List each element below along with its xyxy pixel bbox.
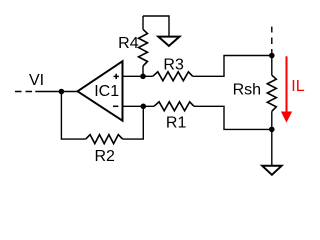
svg-text:VI: VI	[29, 72, 44, 89]
wire R3 to node C	[193, 56, 270, 77]
node E junction dot (bottom of Rsh)	[269, 127, 275, 133]
node D junction dot (-/R2/R1)	[141, 104, 147, 110]
node C junction dot (top of Rsh)	[269, 53, 275, 59]
svg-text:IL: IL	[291, 78, 304, 95]
resistor R3	[153, 72, 193, 81]
ground (arrow) at R4	[158, 37, 179, 46]
pin - (inverting input)	[113, 105, 118, 107]
node A junction dot (VI / output / R2)	[59, 89, 65, 95]
svg-text:R2: R2	[95, 148, 116, 165]
svg-text:R4: R4	[118, 35, 139, 52]
dashed stub above node C	[271, 27, 273, 56]
svg-text:Rsh: Rsh	[233, 81, 261, 98]
wire R1 to node E	[194, 106, 270, 129]
wire node E to ground	[271, 129, 273, 165]
resistor R1	[154, 102, 194, 111]
wire + input to R3	[123, 75, 153, 77]
svg-text:R1: R1	[166, 114, 187, 131]
wire - input to R1	[123, 105, 155, 107]
wire R4 top to arrow ground	[143, 16, 169, 37]
resistor R4	[139, 16, 148, 76]
resistor R2	[86, 135, 123, 144]
pin + (non-inverting input)	[114, 74, 119, 79]
ground at bottom	[262, 166, 281, 175]
op-amp IC1 triangle	[78, 61, 123, 120]
node VI dashed stub	[15, 91, 33, 93]
node B junction dot (+/R4/R3)	[140, 74, 146, 80]
svg-text:R3: R3	[163, 56, 184, 73]
wire VI to op-amp output	[35, 91, 77, 93]
wire down from node A to R2	[61, 92, 85, 140]
svg-text:IC1: IC1	[94, 83, 119, 100]
resistor Rsh	[267, 56, 276, 130]
wire R2 to inverting node	[123, 106, 144, 139]
current arrow IL	[281, 56, 292, 122]
